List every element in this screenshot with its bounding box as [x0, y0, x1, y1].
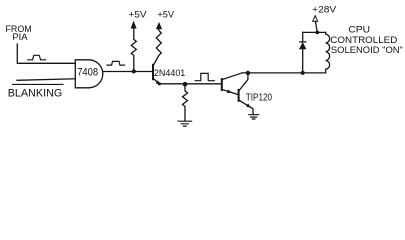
node CPU CONTROLLED SOLENOID label [330, 24, 403, 54]
node FROM PIA label [6, 24, 32, 42]
node junction dot at diode bottom [301, 71, 305, 75]
wire Q1 emitter to Q2 base [159, 83, 221, 85]
node collector junction dot [246, 71, 250, 75]
transistor Q2 TIP120 second stage [238, 90, 240, 101]
transistor Q1 2N4401 [152, 65, 154, 79]
node emitter junction dot [158, 82, 161, 85]
power +28V arrow [316, 21, 318, 32]
svg-text:BLANKING: BLANKING [8, 87, 63, 99]
wire gate output to Q1 base [103, 71, 153, 73]
resistor R3 base-emitter [183, 84, 188, 121]
svg-text:+28V: +28V [312, 5, 336, 15]
power +5V arrow 2 [157, 23, 162, 29]
op-amp U1 7408 AND gate [75, 60, 103, 88]
wire PIA to gate input 1 [17, 44, 75, 63]
wire collector rail to solenoid [242, 72, 326, 74]
resistor R2 collector load [153, 29, 161, 65]
power +5V arrow 1 [131, 22, 136, 28]
svg-text:+5V: +5V [157, 10, 174, 20]
svg-text:2N4401: 2N4401 [154, 68, 185, 78]
svg-text:SOLENOID "ON": SOLENOID "ON" [331, 45, 403, 55]
transistor Q2 TIP120 darlington first stage [221, 79, 223, 90]
svg-text:CONTROLLED: CONTROLLED [330, 35, 398, 45]
inductor L1 solenoid coil [326, 32, 330, 73]
node BLANKING label with overbar [13, 83, 63, 85]
svg-text:CPU: CPU [348, 24, 370, 34]
svg-text:TIP120: TIP120 [246, 93, 273, 104]
ground under R3 [178, 121, 192, 126]
svg-text:PIA: PIA [12, 32, 27, 42]
node junction dot at +28V [316, 31, 320, 35]
wire top bar diode to coil [303, 31, 326, 33]
node junction dot at R1 bottom [132, 69, 136, 73]
diode D1 flyback [302, 49, 304, 73]
resistor R1 pull-up [131, 28, 136, 72]
ground under Q2 emitter [249, 115, 259, 119]
pulse waveform 2 [107, 61, 125, 65]
svg-text:+5V: +5V [129, 10, 147, 20]
pulse waveform 3 [195, 73, 214, 80]
node junction dot at R3 top [183, 82, 188, 87]
wire BLANKING to gate input 2 [17, 79, 75, 81]
svg-text:7408: 7408 [77, 67, 98, 79]
pulse waveform 1 [28, 55, 46, 60]
